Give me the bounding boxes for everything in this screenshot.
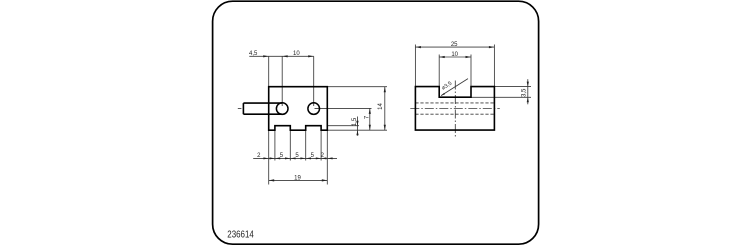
body outline with bottom notches bbox=[269, 87, 328, 131]
center line: hole 1 vertical bbox=[281, 56, 283, 106]
labels side view bbox=[441, 42, 528, 97]
body outline with top slot bbox=[415, 87, 494, 131]
drawing sheet border bbox=[213, 1, 539, 244]
extension line: slot bottom to right bbox=[471, 96, 531, 98]
extension line: foot edge a bbox=[274, 130, 276, 160]
shaft top line bbox=[243, 102, 282, 104]
dimension line: 19 bbox=[269, 179, 328, 181]
arrow leader tip bbox=[441, 93, 445, 96]
center line: hole 2 vertical bbox=[313, 56, 315, 106]
center line: vertical bbox=[454, 81, 456, 137]
extension line: bottom left long bbox=[268, 130, 270, 184]
arrow 25 right bbox=[489, 46, 495, 48]
arrow 10 left bbox=[439, 56, 445, 58]
svg-text:236614: 236614 bbox=[227, 229, 254, 240]
dimension line: 1,5 (vertical) bbox=[357, 117, 359, 136]
arrow 14 bottom bbox=[384, 125, 386, 131]
extension line: body top to right bbox=[494, 86, 531, 88]
shaft end cap bbox=[242, 103, 244, 114]
extension line: notch top right bbox=[327, 125, 359, 127]
svg-text:25: 25 bbox=[451, 42, 458, 48]
svg-text:10: 10 bbox=[293, 51, 300, 57]
arrow at hole1 centerline pointing left bbox=[282, 55, 288, 57]
arrow 3,5 lower bbox=[527, 97, 529, 102]
dimension line: 14 (vertical) bbox=[384, 87, 386, 131]
dimension line: 7 (vertical) bbox=[369, 108, 371, 130]
hole 1 bbox=[276, 103, 288, 115]
arrow 1,5 lower (outside, pointing up) bbox=[356, 130, 358, 135]
leader line for slot bbox=[441, 79, 468, 96]
svg-text:1,5: 1,5 bbox=[352, 117, 358, 126]
extension line: body left edge up bbox=[268, 56, 270, 86]
extension line: body bottom right bbox=[327, 129, 387, 131]
extension line: foot edge b bbox=[289, 130, 291, 160]
svg-text:4,5: 4,5 bbox=[249, 51, 258, 57]
arrow 7 bottom bbox=[369, 125, 371, 131]
dimension line: 2,5,5,5,2 row bbox=[253, 157, 337, 159]
center line: hole 2 horizontal to right bbox=[315, 107, 372, 109]
dimension line: 25 bbox=[415, 46, 494, 48]
extension line: slot right up bbox=[470, 55, 472, 87]
arrow 1,5 upper (outside, pointing down) bbox=[356, 121, 358, 126]
svg-text:10: 10 bbox=[451, 52, 458, 58]
extension line: slot left up bbox=[438, 55, 440, 87]
center line: shaft left dash bbox=[238, 108, 242, 110]
extension line: bottom right long bbox=[326, 130, 328, 184]
extension line: body right up bbox=[493, 45, 495, 87]
arrows row 2-5-5-5-2 bbox=[263, 157, 268, 159]
dimension line: 10 bbox=[439, 56, 471, 58]
dimension line: 4,5 and 10 (top) bbox=[249, 55, 313, 57]
svg-text:19: 19 bbox=[294, 176, 301, 182]
arrow 25 left bbox=[415, 46, 421, 48]
arrow 10 right bbox=[308, 55, 314, 57]
labels front view bbox=[249, 51, 384, 181]
center lines side view bbox=[410, 81, 500, 137]
arrow 19 right bbox=[322, 179, 328, 181]
arrow 7 top bbox=[369, 108, 371, 114]
hidden lines (holes) bbox=[415, 103, 494, 114]
extension line: foot edge d bbox=[320, 130, 322, 160]
extension line: body top right bbox=[327, 86, 387, 88]
arrowheads side view bbox=[415, 46, 529, 102]
svg-text:3,5: 3,5 bbox=[522, 88, 528, 97]
center line: horizontal bbox=[410, 108, 500, 110]
arrow 3,5 upper bbox=[527, 82, 529, 87]
extension line: body left up bbox=[414, 45, 416, 87]
extension line: foot edge c bbox=[305, 130, 307, 160]
hidden line: holes bottom bbox=[415, 113, 494, 115]
arrow 19 left bbox=[269, 179, 275, 181]
side view outline bbox=[415, 87, 494, 131]
svg-text:14: 14 bbox=[378, 103, 384, 110]
dimension line: 3,5 (vertical, outside arrows) bbox=[527, 79, 529, 104]
arrow 10 right bbox=[466, 56, 472, 58]
arrow 4,5 left bbox=[263, 55, 269, 57]
shaft bottom line bbox=[243, 113, 282, 115]
hole 2 bbox=[308, 103, 320, 115]
arrowheads front view bbox=[263, 55, 386, 181]
hidden line: holes top bbox=[415, 102, 494, 104]
arrow 14 top bbox=[384, 87, 386, 93]
